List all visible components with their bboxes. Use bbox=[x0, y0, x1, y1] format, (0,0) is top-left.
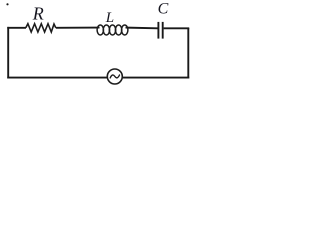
inductor L1 coil loop 1 bbox=[97, 25, 103, 35]
inductor L1 coil loop 5 bbox=[122, 25, 128, 35]
svg-text:L: L bbox=[105, 10, 114, 26]
AC source V1 circle bbox=[107, 69, 122, 84]
AC source V1 sine symbol bbox=[110, 75, 119, 78]
inductor L1 coil loop 2 bbox=[103, 25, 109, 35]
inductor L1 coil loop 3 bbox=[109, 25, 115, 35]
capacitor C1 right plate bbox=[162, 22, 164, 39]
wire: inductor to capacitor bbox=[126, 27, 158, 30]
svg-text:R: R bbox=[32, 4, 44, 24]
wire: left vertical side bbox=[7, 27, 9, 79]
svg-text:C: C bbox=[158, 0, 169, 17]
wire: top-left segment (corner to resistor) bbox=[7, 27, 26, 29]
wire: capacitor to top-right corner bbox=[164, 27, 190, 29]
resistor R1 zigzag bbox=[26, 24, 56, 32]
wire: bottom side bbox=[7, 77, 189, 79]
stray dot top-left bbox=[6, 3, 8, 5]
wire: resistor to inductor bbox=[56, 27, 100, 29]
wire: right vertical side bbox=[187, 28, 189, 79]
inductor L1 coil loop 4 bbox=[115, 25, 121, 35]
capacitor C1 left plate bbox=[157, 22, 159, 39]
